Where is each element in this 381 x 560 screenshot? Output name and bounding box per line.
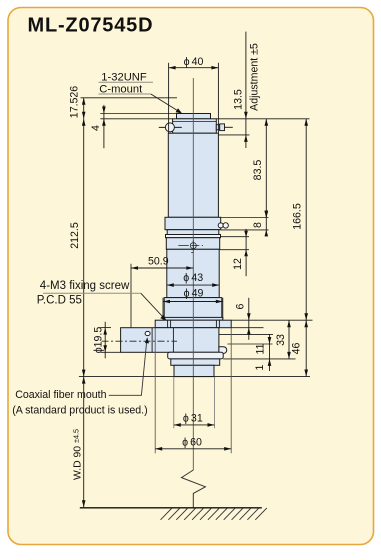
svg-text:(A standard product is used.): (A standard product is used.) [12,405,147,417]
svg-text:4: 4 [90,125,102,131]
svg-text:8: 8 [252,222,264,228]
svg-text:11: 11 [255,343,267,354]
ring A bottom extended right [223,358,295,360]
ground line [80,507,262,509]
svg-text:ϕ 40: ϕ 40 [184,56,204,68]
flange top ring (phi60 plate) [155,320,231,328]
flange ring top extended right [231,319,312,321]
svg-text:P.C.D 55: P.C.D 55 [37,295,82,307]
svg-text:12: 12 [232,258,244,270]
light ring A [168,352,224,359]
svg-text:ϕ 31: ϕ 31 [183,412,203,424]
flange cap top extended right [216,118,309,120]
top cap top edge extended left [100,113,176,115]
flange cap top extended left [100,118,172,120]
ring1 top extended right [221,217,269,219]
phi19.5 top tick [101,327,112,329]
ring 1 [165,217,221,229]
svg-text:33: 33 [275,334,287,346]
main body (phi40 barrel) [168,133,218,217]
flange body and coaxial fiber block [121,328,219,353]
flange body joint lines [151,328,153,353]
svg-text:166.5: 166.5 [292,203,304,230]
ring B [171,359,220,365]
svg-text:83.5: 83.5 [252,160,264,181]
svg-text:Coaxial fiber mouth: Coaxial fiber mouth [15,389,106,401]
phi43 barrel [167,249,219,297]
ring4 bottom extended right [220,249,249,251]
ring 4 [166,238,219,250]
svg-text:Adjustment ±5: Adjustment ±5 [248,43,260,111]
ring 2 [167,230,219,235]
top cap (C-mount) [177,114,211,119]
svg-text:ϕ19.5: ϕ19.5 [93,327,105,354]
svg-text:1: 1 [254,364,266,370]
C-mount seat plane line [81,97,178,99]
svg-text:212.5: 212.5 [69,222,81,249]
svg-text:4-M3 fixing screw: 4-M3 fixing screw [40,280,130,292]
svg-text:ϕ 43: ϕ 43 [183,272,203,284]
body top extended right [218,134,249,136]
phi49 bottom lip [163,317,223,320]
ring 3 [166,235,221,238]
block bottom extended left [101,351,121,353]
ground hatching [161,508,267,520]
svg-text:ϕ 60: ϕ 60 [182,436,202,448]
flange ring screw slot lines [152,320,219,352]
left screw on flange cap [159,123,182,132]
adjustment flange cap [173,119,217,133]
ring3 bottom extended right [221,236,250,238]
phi49 barrel [164,298,222,320]
right screw on flange cap [216,124,233,131]
flange ring bottom extended right [231,327,263,329]
svg-text:13.5: 13.5 [232,89,244,110]
lens bottom face line [79,376,310,378]
break zigzag [182,470,206,508]
svg-text:46: 46 [290,343,302,355]
svg-text:ϕ 49: ϕ 49 [184,288,204,300]
thumbscrew circles on ring 1 [218,223,228,228]
svg-text:ML-Z07545D: ML-Z07545D [28,15,154,37]
fiber port level extended right [219,333,273,335]
focus mark crosshair [178,241,203,253]
svg-text:17.526: 17.526 [68,86,80,119]
svg-text:50.9: 50.9 [148,256,169,268]
svg-text:6: 6 [235,303,247,309]
phi31 bottom barrel [174,365,214,376]
side knob on flange [219,347,227,354]
ring1 bottom extended right [221,229,269,231]
knob top extended right [228,343,273,345]
fiber mouth circle [145,331,150,335]
